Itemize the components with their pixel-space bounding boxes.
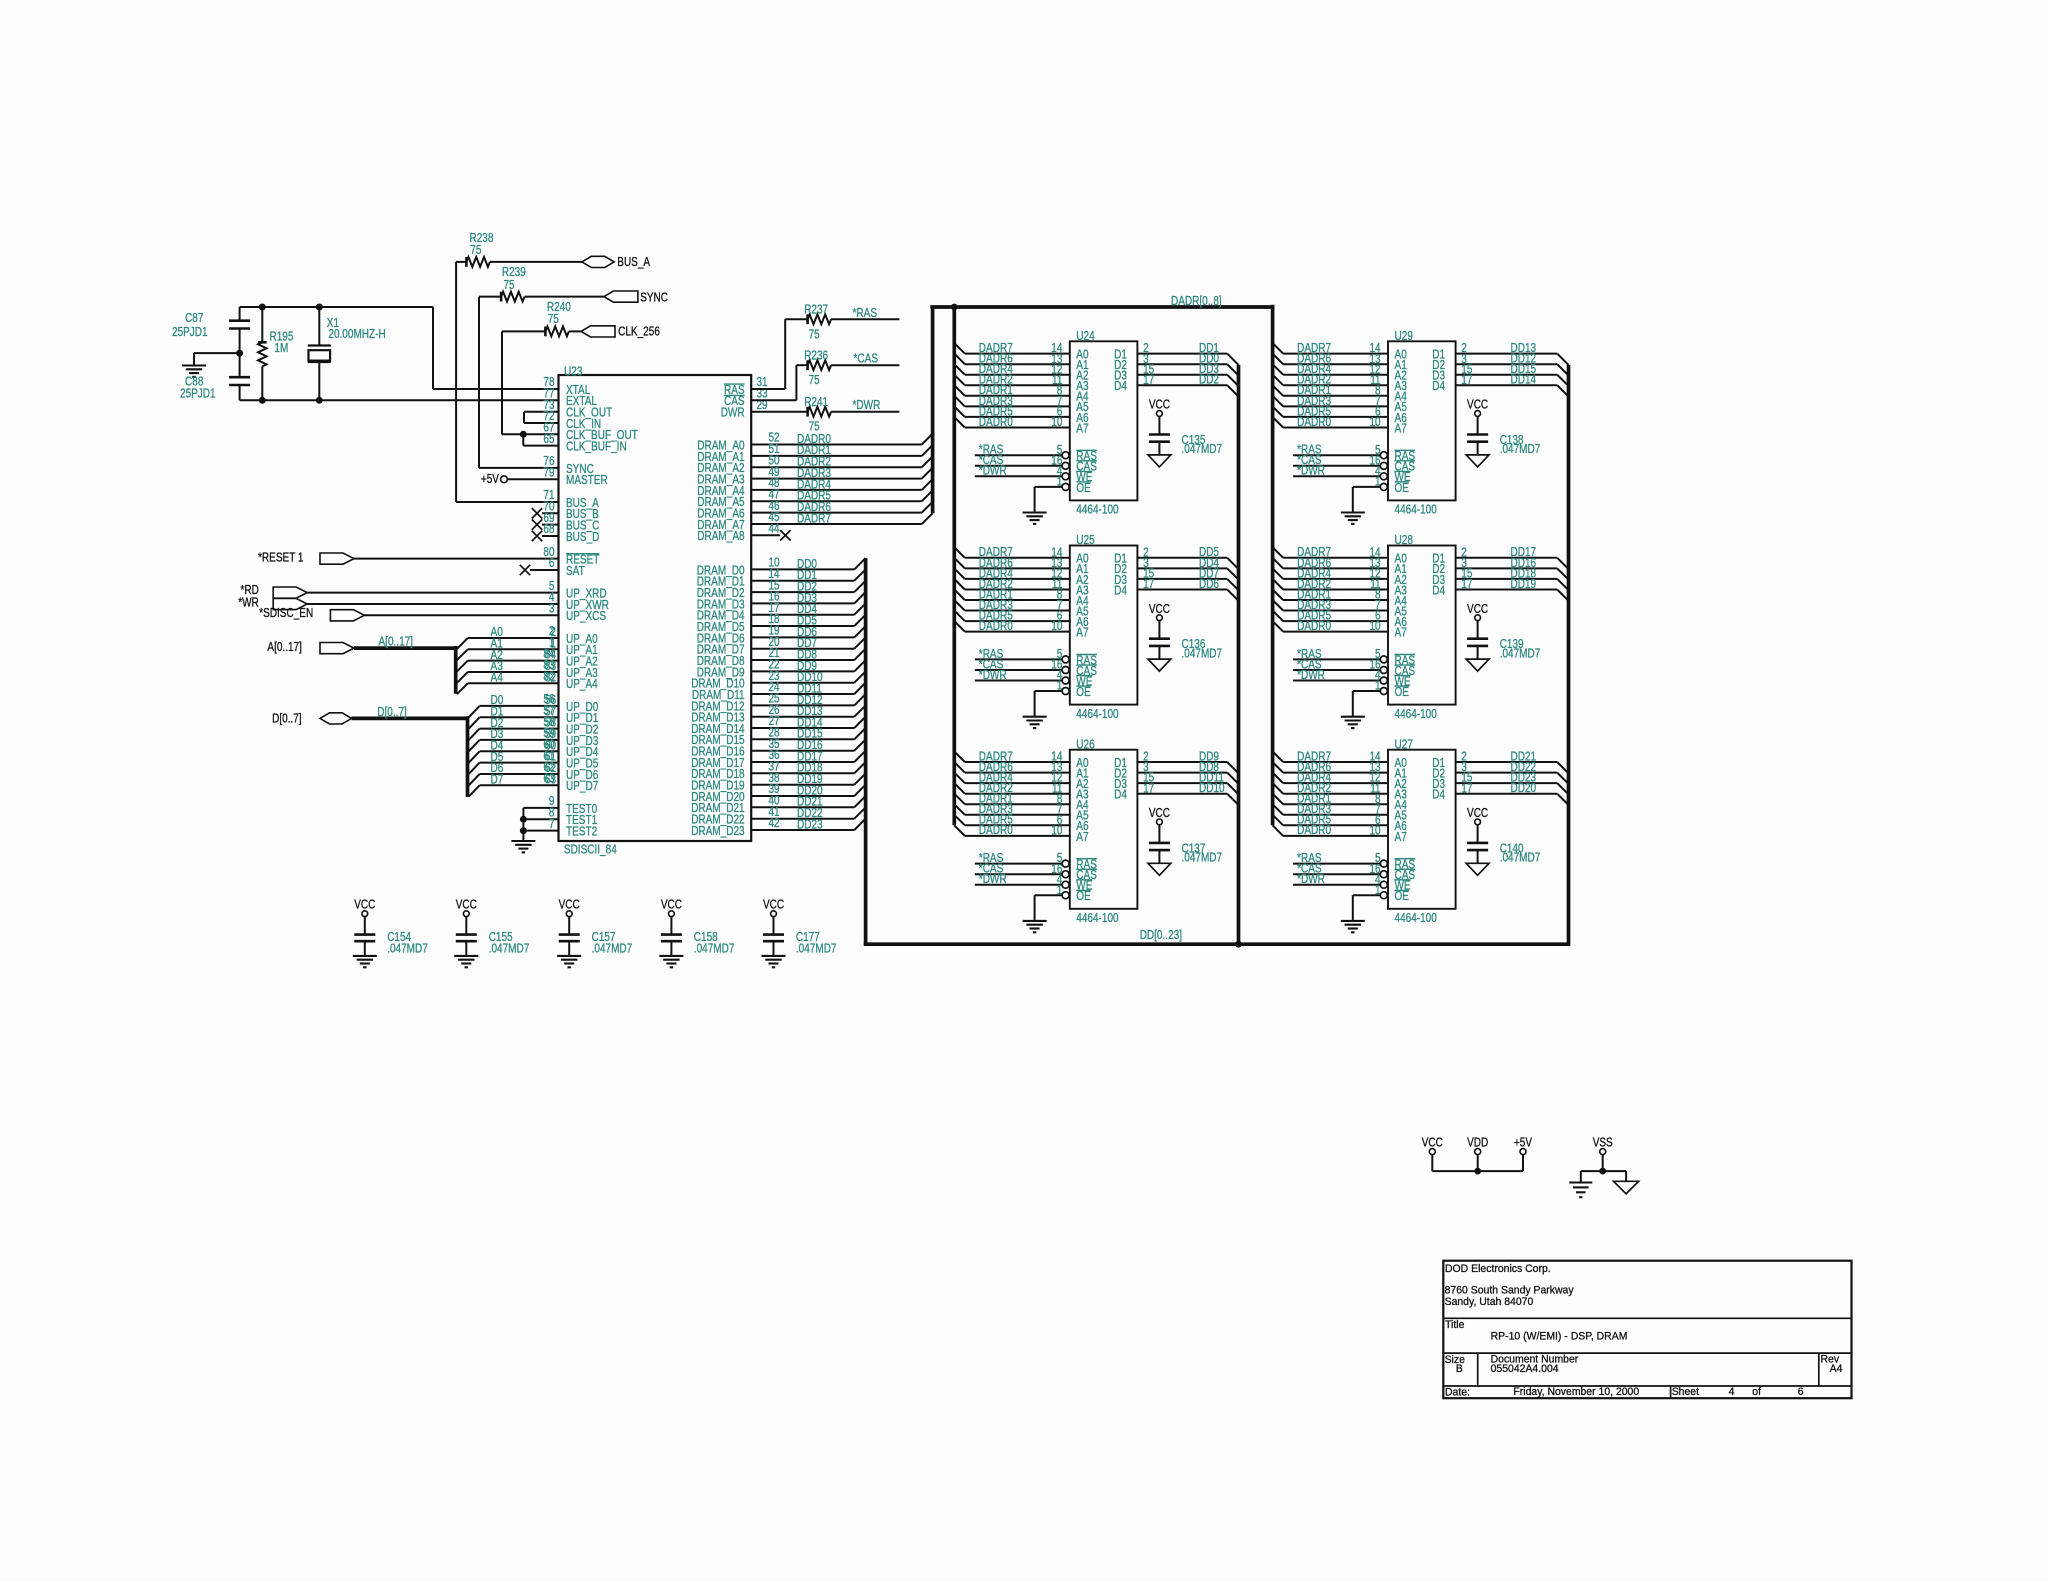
svg-text:.047MD7: .047MD7 [1182,442,1223,456]
ground triangle C139 [1466,659,1489,671]
ground TEST pins [511,840,535,842]
svg-text:U24: U24 [1076,329,1094,343]
svg-text:.047MD7: .047MD7 [1182,646,1223,660]
wire *RAS [975,658,1062,660]
wire DADR4 tap [954,773,965,784]
capacitor C158 [661,933,682,936]
svg-text:25PJD1: 25PJD1 [180,387,216,401]
svg-text:4464-100: 4464-100 [1395,503,1437,517]
svg-text:*DWR: *DWR [1297,668,1325,682]
wire SYNC net vertical [478,297,480,468]
wire A2 tap [457,661,468,672]
svg-text:.047MD7: .047MD7 [1500,851,1541,865]
wire DADR0 tap [1273,417,1284,428]
wire A4 tap [457,683,468,694]
capacitor C138 [1467,433,1488,436]
bus DD[0..23] bottom rail [864,942,1569,946]
wire DADR0 tap [954,825,965,836]
bus DD right column vertical [1567,365,1571,946]
resistor R240 [502,330,545,332]
no-connect X SAT [530,569,559,571]
svg-text:R237: R237 [804,303,828,317]
wire DADR2 tap [1273,375,1284,386]
wire DD9 [1137,761,1227,763]
svg-text:DD2: DD2 [1199,373,1219,387]
svg-text:BUS_A: BUS_A [617,255,650,269]
svg-text:D7: D7 [491,773,504,787]
svg-text:D[0..7]: D[0..7] [377,705,407,719]
wire DADR6 tap [1273,762,1284,773]
svg-text:3: 3 [549,602,555,616]
svg-text:25PJD1: 25PJD1 [172,325,208,339]
svg-text:DADR0: DADR0 [1297,415,1331,429]
wire DADR3 tap [954,804,965,815]
svg-text:SDISCII_84: SDISCII_84 [564,842,617,856]
wire *DWR [975,884,1062,886]
svg-text:65: 65 [543,432,554,446]
wire DADR0 [751,444,922,446]
wire DADR7 tap [954,343,965,354]
svg-text:VCC: VCC [1149,602,1170,616]
ground C155 [454,955,478,957]
wire *RAS [975,863,1062,865]
svg-text:A7: A7 [1395,626,1407,640]
wire DADR4 tap [954,568,965,579]
ground triangle C137 [1148,863,1171,875]
wire DD11 [1137,782,1227,784]
wire *CAS [1293,873,1380,875]
svg-text:DD6: DD6 [1199,577,1219,591]
resistor R236 [751,399,796,401]
svg-text:*DWR: *DWR [1297,872,1325,886]
wire DADR1 tap [954,794,965,805]
wire A1 tap [457,649,468,660]
wire DD18 [751,772,854,774]
svg-text:DRAM_A8: DRAM_A8 [697,529,744,543]
svg-text:BUS_D: BUS_D [566,530,599,544]
capacitor C139 [1467,637,1488,640]
svg-text:.047MD7: .047MD7 [796,942,837,956]
wire DADR2 tap [1273,783,1284,794]
wire DD23 [751,829,854,831]
svg-text:DOD Electronics Corp.: DOD Electronics Corp. [1445,1263,1551,1275]
wire *DWR [1293,884,1380,886]
ground OE [1023,716,1047,718]
wire DD0 [751,568,854,570]
svg-text:VCC: VCC [559,898,580,912]
bus DADR left column vertical [952,307,956,825]
wire OE to ground [1353,690,1381,692]
svg-text:4464-100: 4464-100 [1076,707,1118,721]
wire power tie rail [1432,1170,1523,1172]
wire OE to ground [1353,486,1381,488]
wire DD2 [751,591,854,593]
wire DADR4 [751,489,922,491]
DRAM U28 box [1388,546,1456,705]
bus DADR right column vertical [1271,305,1275,826]
resistor R237 [751,388,785,390]
svg-text:CLK_BUF_IN: CLK_BUF_IN [566,440,627,454]
junction dot DD bus [1235,941,1242,948]
DRAM U29 box [1388,341,1456,500]
wire DADR3 tap [1273,600,1284,611]
wire DADR5 [751,500,922,502]
wire DD10 [751,682,854,684]
svg-text:.047MD7: .047MD7 [694,942,735,956]
svg-text:OE: OE [1395,481,1410,495]
svg-text:A4: A4 [1830,1363,1843,1375]
svg-text:DADR0: DADR0 [1297,619,1331,633]
svg-text:VCC: VCC [1149,398,1170,412]
svg-text:VDD: VDD [1467,1136,1488,1150]
wire DD6 [751,636,854,638]
svg-text:DD10: DD10 [1199,781,1225,795]
wire DD14 [1456,384,1558,386]
wire DADR7 tap [954,752,965,763]
DRAM U24 box [1070,341,1138,500]
wire DD8 [1137,772,1227,774]
svg-text:DADR[0..8]: DADR[0..8] [1171,294,1222,308]
junction dot TEST2 [520,827,527,834]
wire D7 tap [469,785,480,796]
wire OE to ground [1035,894,1063,896]
bus DADR[0..8] top rail [930,305,1274,309]
wire DADR1 tap [1273,794,1284,805]
wire DD16 [751,750,854,752]
ground triangle C140 [1466,863,1489,875]
svg-text:DWR: DWR [721,406,745,420]
svg-text:A[0..17]: A[0..17] [379,635,414,649]
svg-text:A7: A7 [1076,626,1088,640]
svg-text:055042A4.004: 055042A4.004 [1491,1363,1559,1375]
svg-text:+5V: +5V [1514,1136,1533,1150]
junction dot TEST1 [520,816,527,823]
wire OE to ground [1035,690,1063,692]
junction dots oscillator rails [259,304,266,311]
junction dot CLK_BUF [520,431,527,438]
svg-text:Friday, November 10, 2000: Friday, November 10, 2000 [1513,1386,1639,1398]
capacitor C136 [1149,637,1170,640]
svg-text:R236: R236 [804,348,828,362]
svg-text:4: 4 [1729,1386,1735,1398]
svg-text:D4: D4 [1432,583,1445,597]
svg-text:A[0..17]: A[0..17] [267,640,302,654]
wire DD21 [751,806,854,808]
ground C177 [762,955,786,957]
no-connect X BUS_D [542,535,559,537]
svg-text:A7: A7 [1076,421,1088,435]
svg-text:4464-100: 4464-100 [1395,911,1437,925]
svg-text:*RESET 1: *RESET 1 [258,551,304,565]
ground triangle C136 [1148,659,1171,671]
svg-text:DD23: DD23 [797,817,823,831]
svg-text:Sandy, Utah 84070: Sandy, Utah 84070 [1445,1296,1534,1308]
wire DD8 [751,659,854,661]
wire *DWR [1293,475,1380,477]
svg-text:DD[0..23]: DD[0..23] [1140,928,1182,942]
node oscillator bottom rail / EXTAL wire [240,399,559,401]
svg-text:CLK_256: CLK_256 [618,325,660,339]
wire DD19 [751,784,854,786]
junction dot VDD [1474,1168,1481,1175]
svg-text:DD20: DD20 [1511,781,1537,795]
IC U23 SDISCII_84 box [559,375,752,841]
wire *DWR [975,680,1062,682]
bus DD collector vertical [864,558,868,946]
capacitor C87 [239,307,241,321]
wire *RAS [1293,658,1380,660]
wire D4 tap [469,751,480,762]
ground OE [1023,920,1047,922]
resistor R238 [456,261,466,263]
no-connect X BUS_B [542,512,559,514]
svg-text:VCC: VCC [1467,398,1488,412]
resistor R239 [479,296,501,298]
svg-text:UP_XCS: UP_XCS [566,609,606,623]
wire DD12 [751,704,854,706]
wire DD22 [751,818,854,820]
ground triangle C135 [1148,455,1171,467]
svg-text:8760 South Sandy Parkway: 8760 South Sandy Parkway [1445,1285,1574,1297]
wire DADR6 tap [1273,354,1284,365]
wire D5 tap [469,763,480,774]
wire CLK_BUF net [501,331,503,434]
wire DADR0 tap [1273,621,1284,632]
svg-text:.047MD7: .047MD7 [1500,646,1541,660]
svg-text:79: 79 [543,466,554,480]
svg-text:6: 6 [1798,1386,1804,1398]
capacitor C88 [239,353,241,377]
wire DD12 [1456,363,1558,365]
svg-text:44: 44 [769,522,780,536]
svg-text:.047MD7: .047MD7 [387,942,428,956]
wire DADR0 tap [1273,825,1284,836]
svg-text:Date:: Date: [1445,1387,1470,1399]
svg-text:of: of [1752,1386,1762,1398]
svg-text:C87: C87 [185,311,203,325]
svg-text:U23: U23 [564,364,582,378]
wire D3 tap [469,740,480,751]
wire DD2 [1137,384,1227,386]
wire DADR6 tap [954,354,965,365]
ground C157 [557,955,581,957]
wire DADR6 tap [954,558,965,569]
svg-text:Sheet: Sheet [1672,1386,1699,1398]
wire DADR5 tap [954,406,965,417]
wire DADR2 tap [954,579,965,590]
svg-text:VCC: VCC [354,898,375,912]
svg-text:U25: U25 [1076,533,1094,547]
svg-text:*DWR: *DWR [1297,464,1325,478]
ground C158 [659,955,683,957]
svg-text:Title: Title [1445,1319,1464,1331]
title block frame [1443,1261,1851,1399]
connector CLK_256 [581,326,615,337]
svg-text:75: 75 [504,278,515,292]
wire DD7 [751,648,854,650]
connector BUS_A [582,256,614,267]
wire DADR7 tap [1273,343,1284,354]
wire DD0 [1137,363,1227,365]
wire *CAS [1293,669,1380,671]
ground [182,364,206,366]
wire CLK_OUT-CLK_IN loop [524,411,559,413]
wire DD1 [1137,353,1227,355]
wire *DWR [975,475,1062,477]
wire DADR0 tap [954,621,965,632]
bus A[0..17] thick wire [354,646,456,650]
svg-text:OE: OE [1076,889,1091,903]
svg-text:A7: A7 [1395,421,1407,435]
wire DD16 [1456,567,1558,569]
DRAM U26 box [1070,750,1138,909]
wire DADR7 tap [1273,752,1284,763]
ground VSS earth [1580,1171,1582,1182]
svg-text:D4: D4 [1114,788,1127,802]
svg-text:B: B [1456,1363,1463,1375]
resistor R195 [261,307,263,342]
wire DD1 [751,580,854,582]
svg-text:U27: U27 [1395,737,1413,751]
wire DD20 [751,795,854,797]
svg-text:*WR: *WR [238,596,259,610]
svg-text:D[0..7]: D[0..7] [272,712,302,726]
svg-text:OE: OE [1395,889,1410,903]
wire DADR3 tap [1273,804,1284,815]
wire DADR2 tap [1273,579,1284,590]
no-connect X BUS_C [542,524,559,526]
node mid junction [236,350,243,357]
svg-text:DD19: DD19 [1511,577,1537,591]
wire DADR4 tap [1273,773,1284,784]
svg-text:DADR7: DADR7 [797,511,831,525]
wire DD13 [751,716,854,718]
svg-text:68: 68 [543,522,554,536]
ground VSS triangle [1625,1171,1627,1181]
ground C154 [353,955,377,957]
wire DADR2 [751,466,922,468]
ground OE [1341,920,1365,922]
wire DD19 [1456,589,1558,591]
svg-text:VCC: VCC [1467,602,1488,616]
svg-text:D4: D4 [1114,379,1127,393]
svg-text:*CAS: *CAS [854,352,879,366]
wire TEST0-TEST2 to ground [523,807,558,809]
svg-text:VSS: VSS [1593,1136,1613,1150]
svg-text:82: 82 [543,670,554,684]
svg-text:DADR0: DADR0 [979,415,1013,429]
wire DD3 [1137,374,1227,376]
wire D2 tap [469,729,480,740]
svg-text:VCC: VCC [1422,1136,1443,1150]
wire D1 tap [469,717,480,728]
wire DD4 [1137,567,1227,569]
svg-text:VCC: VCC [456,898,477,912]
svg-text:OE: OE [1395,685,1410,699]
wire BUS_A net vertical [455,262,457,502]
svg-text:6: 6 [549,556,555,570]
svg-text:A4: A4 [491,671,503,685]
ground OE [1023,511,1047,513]
svg-text:OE: OE [1076,481,1091,495]
svg-text:D4: D4 [1432,788,1445,802]
svg-text:75: 75 [809,373,820,387]
wire DADR7 [751,523,922,525]
svg-text:A7: A7 [1076,830,1088,844]
capacitor C154 [354,933,375,936]
ground OE [1341,716,1365,718]
svg-text:4464-100: 4464-100 [1076,911,1118,925]
junction dot VSS [1599,1168,1606,1175]
wire *CAS [1293,465,1380,467]
svg-text:VCC: VCC [1149,806,1170,820]
svg-text:UP_D7: UP_D7 [566,779,598,793]
capacitor C137 [1149,842,1170,845]
wire DD20 [1456,793,1558,795]
svg-text:42: 42 [769,816,780,830]
svg-text:D4: D4 [1432,379,1445,393]
wire DADR1 tap [1273,385,1284,396]
svg-text:DADR0: DADR0 [979,619,1013,633]
svg-text:RP-10 (W/EMI) - DSP, DRAM: RP-10 (W/EMI) - DSP, DRAM [1491,1330,1628,1342]
wire DADR5 tap [954,815,965,826]
svg-text:*DWR: *DWR [979,464,1007,478]
wire DD7 [1137,578,1227,580]
junction dot DADR bus [951,304,958,311]
wire DD18 [1456,578,1558,580]
wire DD14 [751,727,854,729]
wire D0 tap [469,706,480,717]
wire DADR7 tap [954,547,965,558]
svg-text:VCC: VCC [661,898,682,912]
wire DADR4 tap [1273,568,1284,579]
svg-text:63: 63 [543,772,554,786]
svg-text:A7: A7 [1395,830,1407,844]
wire XTAL vertical [432,307,434,389]
wire DADR5 tap [1273,406,1284,417]
ground OE [1341,511,1365,513]
svg-text:UP_A4: UP_A4 [566,677,598,691]
DRAM U27 box [1388,750,1456,909]
svg-text:*RD: *RD [241,583,259,597]
wire DADR1 tap [1273,590,1284,601]
wire DADR6 [751,512,922,514]
svg-text:DD14: DD14 [1511,373,1537,387]
capacitor C135 [1149,433,1170,436]
wire DADR2 tap [954,375,965,386]
wire DADR6 tap [1273,558,1284,569]
wire *RAS [1293,863,1380,865]
svg-text:DRAM_D23: DRAM_D23 [691,824,744,838]
svg-text:*RAS: *RAS [853,306,878,320]
wire DD23 [1456,782,1558,784]
capacitor C140 [1467,842,1488,845]
svg-text:4464-100: 4464-100 [1395,707,1437,721]
wire DD13 [1456,353,1558,355]
wire DADR2 tap [954,783,965,794]
wire DADR0 tap [954,417,965,428]
wire DADR1 tap [954,385,965,396]
svg-text:1M: 1M [274,341,288,355]
svg-text:7: 7 [549,817,555,831]
svg-text:SYNC: SYNC [640,290,668,304]
wire DADR3 tap [954,600,965,611]
svg-text:75: 75 [548,312,559,326]
DRAM U25 box [1070,546,1138,705]
svg-text:DADR0: DADR0 [979,823,1013,837]
svg-text:U29: U29 [1395,329,1413,343]
bus DADR collector vertical [931,307,935,513]
